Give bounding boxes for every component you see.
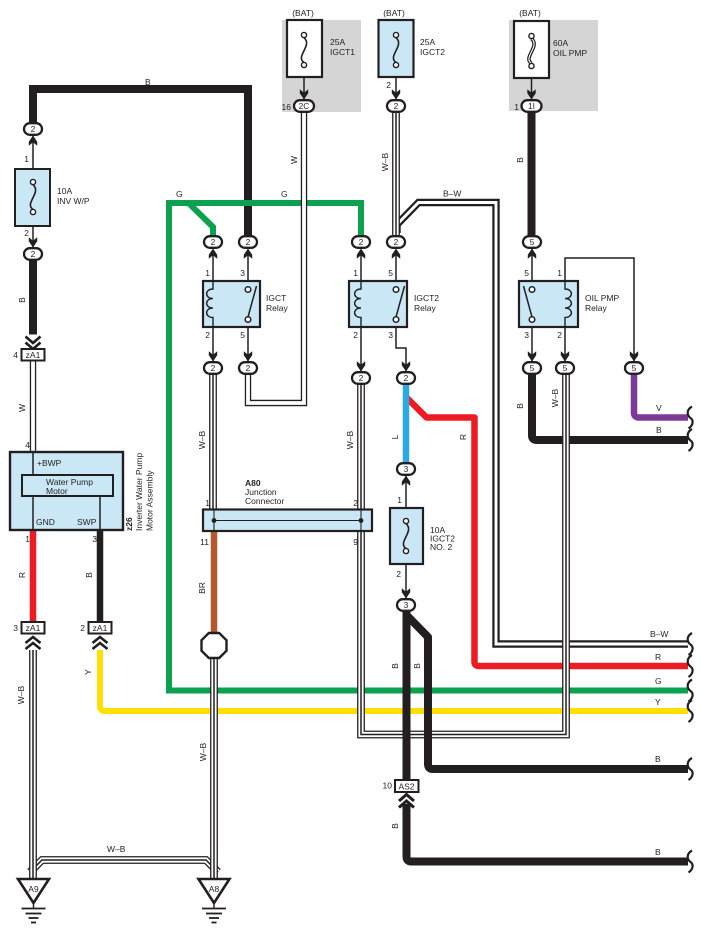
svg-text:B–W: B–W: [443, 189, 461, 199]
fuse F4 60A OIL PMP (fusible link): [514, 21, 549, 78]
svg-text:B–W: B–W: [650, 629, 668, 639]
svg-text:Connector: Connector: [245, 496, 284, 506]
ground A9: [18, 879, 49, 923]
wire V: oval below OIL PMP relay pin1 loop, down then right to edge: [634, 374, 688, 418]
connector zA1 pin 3: [22, 622, 45, 649]
svg-text:+BWP: +BWP: [37, 458, 62, 468]
node oval 5 (OIL PMP relay pin1 loop): [625, 362, 643, 374]
node oval 2 (IGCT2 relay pin5): [387, 236, 405, 248]
svg-text:3: 3: [524, 330, 529, 340]
svg-text:11: 11: [200, 537, 209, 547]
wire W: from IGCT relay pin5 oval down, right, up to fuse 25A IGCT1 oval 2C: [248, 112, 304, 403]
wire W-B: IGCT2 relay pin2 oval down to A80 pin2: [357, 384, 365, 510]
node oval 3 (fuse IGCT2 NO.2 pin2): [397, 599, 415, 611]
arrow into oval below fuse IGCT2: [392, 89, 400, 99]
wire G branch: diagonal from green trunk down to IGCT relay pin1 oval: [188, 203, 213, 241]
svg-text:Y: Y: [83, 669, 93, 675]
svg-text:Y: Y: [655, 697, 661, 707]
node oval 2C (fuse IGCT1): [294, 100, 314, 112]
svg-text:B: B: [515, 157, 525, 163]
svg-text:5: 5: [240, 330, 245, 340]
break symbol wire V: [688, 407, 693, 429]
svg-text:GND: GND: [36, 517, 55, 527]
break symbol wire B (below AS2): [688, 851, 693, 873]
connector AS2 pin 10: [395, 780, 419, 808]
svg-text:2: 2: [211, 363, 216, 373]
pin line: fuse INV W/P pin1 to oval: [32, 136, 34, 169]
svg-text:R: R: [458, 434, 468, 440]
node oval 2 (IGCT relay pin1): [204, 236, 222, 248]
wire R: motor GND pin1 down to zA1 pin3: [30, 530, 37, 622]
svg-text:(BAT): (BAT): [292, 8, 314, 18]
svg-text:W–B: W–B: [197, 430, 207, 449]
svg-text:B: B: [412, 663, 422, 669]
wire B-W: from IGCT2 relay pin5 oval diagonal up, across, down right side, to edge: [397, 203, 688, 645]
wire G trunk: IGCT2 relay pin1 oval up, across, down left side, along bottom to edge: [169, 203, 688, 691]
svg-text:B: B: [84, 572, 94, 578]
svg-text:2: 2: [246, 237, 251, 247]
svg-text:3: 3: [388, 330, 393, 340]
arrow into oval above IGCT relay pin3: [244, 249, 252, 259]
wire B: motor SWP pin3 down to zA1 pin2: [97, 530, 104, 622]
svg-text:1: 1: [514, 102, 519, 112]
svg-text:zA1: zA1: [93, 623, 108, 633]
wire B thick: below AS2 down then right to edge: [407, 804, 689, 862]
ground A8: [199, 879, 230, 923]
svg-text:2: 2: [394, 101, 399, 111]
wire W-B: zA1 pin3 down to ground A9: [29, 650, 37, 881]
arrow into oval above fuse INV W/P: [29, 136, 37, 146]
svg-text:IGCT1: IGCT1: [330, 47, 355, 57]
node oval 2 (IGCT relay pin3): [239, 236, 257, 248]
svg-text:5: 5: [388, 268, 393, 278]
wire B thick: fuse IGCT2 NO.2 oval down to AS2 pin10: [403, 610, 411, 780]
pin line: fuse 25A IGCT2 pin2 to oval: [395, 77, 397, 101]
pin line: fuse 60A OIL PMP pin1 to oval 1I: [531, 78, 533, 101]
connector zA1 pin 2: [89, 622, 112, 649]
node oval 5 (OIL PMP relay pin2): [556, 362, 574, 374]
node oval 5 (OIL PMP relay pin5): [523, 236, 541, 248]
svg-text:Relay: Relay: [585, 303, 607, 313]
svg-text:W–B: W–B: [380, 152, 390, 171]
arrow into oval below fuse INV W/P: [29, 237, 37, 247]
svg-text:Motor Assembly: Motor Assembly: [145, 470, 155, 531]
wire W-B: fuse 25A IGCT2 oval down to IGCT2 relay pin5 oval: [392, 112, 400, 237]
relay U3 OIL PMP Relay: [519, 281, 578, 327]
svg-text:Relay: Relay: [266, 303, 288, 313]
fuse F1 10A INV W/P: [15, 169, 50, 226]
svg-text:SWP: SWP: [77, 517, 97, 527]
svg-text:25A: 25A: [420, 37, 435, 47]
svg-text:10: 10: [383, 781, 393, 791]
svg-text:9: 9: [353, 537, 358, 547]
svg-text:zA1: zA1: [26, 623, 41, 633]
svg-text:R: R: [17, 572, 27, 578]
svg-text:1: 1: [557, 268, 562, 278]
svg-text:16: 16: [282, 102, 292, 112]
svg-text:AS2: AS2: [398, 782, 414, 792]
fuse F5 10A IGCT2 NO.2: [390, 508, 423, 564]
svg-text:3: 3: [240, 268, 245, 278]
svg-text:3: 3: [404, 600, 409, 610]
svg-text:10A: 10A: [57, 186, 72, 196]
fuse F2 25A IGCT1: [287, 20, 322, 77]
svg-text:IGCT2: IGCT2: [420, 47, 445, 57]
svg-text:2: 2: [246, 363, 251, 373]
svg-text:B: B: [145, 77, 151, 87]
svg-text:A9: A9: [28, 884, 39, 894]
arrow into oval above IGCT relay pin1: [209, 249, 217, 259]
relay U2 IGCT2 Relay: [349, 281, 407, 327]
svg-text:W–B: W–B: [16, 685, 26, 704]
node oval 2 (IGCT2 relay pin1): [352, 236, 370, 248]
break symbol wire R: [688, 655, 693, 677]
svg-text:2: 2: [31, 124, 36, 134]
break symbol wire B (oil relay): [688, 429, 693, 451]
svg-text:(BAT): (BAT): [519, 8, 541, 18]
svg-text:2: 2: [557, 330, 562, 340]
node oval 2 (IGCT2 relay pin3): [397, 372, 415, 384]
wire W: motor pin4 up to zA1 pin4: [30, 360, 36, 452]
svg-text:1: 1: [205, 268, 210, 278]
arrow into oval 2C: [300, 89, 308, 99]
svg-text:1: 1: [205, 498, 210, 508]
svg-text:2: 2: [353, 330, 358, 340]
svg-text:L: L: [390, 434, 400, 439]
arrow into oval above IGCT2 relay pin5: [392, 249, 400, 259]
svg-text:INV W/P: INV W/P: [57, 196, 90, 206]
svg-text:IGCT2: IGCT2: [414, 293, 439, 303]
arrow into oval below OIL PMP relay pin2: [561, 351, 569, 361]
svg-text:2C: 2C: [299, 101, 310, 111]
svg-text:2: 2: [396, 569, 401, 579]
pin lines: IGCT2 relay: [361, 254, 406, 372]
arrow into oval above fuse IGCT2 NO.2: [402, 476, 410, 486]
svg-text:25A: 25A: [330, 37, 345, 47]
svg-text:W–B: W–B: [550, 388, 560, 407]
node oval 2 (fuse INV W/P pin1): [24, 123, 42, 135]
wire W-B: octagon joint down to ground A8: [210, 656, 218, 881]
fuse block panel (60A OIL PMP): [509, 20, 598, 111]
svg-text:4: 4: [25, 440, 30, 450]
svg-text:2: 2: [386, 80, 391, 90]
octagon splice joint: [202, 633, 227, 658]
svg-text:1: 1: [397, 495, 402, 505]
svg-text:B: B: [17, 297, 27, 303]
svg-text:G: G: [655, 676, 662, 686]
svg-text:3: 3: [92, 534, 97, 544]
wire BR: A80 pin11 down to octagon joint: [211, 531, 218, 634]
svg-text:OIL PMP: OIL PMP: [585, 293, 619, 303]
svg-text:BR: BR: [197, 582, 207, 594]
node oval 5 (OIL PMP relay pin3): [523, 362, 541, 374]
svg-text:3: 3: [13, 623, 18, 633]
wire Y: from zA1 pin2 down then right to edge: [100, 650, 688, 711]
break symbol wire B-W: [688, 633, 693, 655]
node oval 1I (fuse OIL PMP): [522, 100, 542, 112]
svg-text:W–B: W–B: [107, 844, 126, 854]
node oval 2 (IGCT relay pin2): [204, 362, 222, 374]
svg-text:2: 2: [353, 498, 358, 508]
svg-text:5: 5: [530, 363, 535, 373]
wire B thick: fuse INV W/P pin2 oval down to zA1 pin4: [29, 259, 37, 335]
arrow into oval below OIL PMP relay pin1 loop: [630, 351, 638, 361]
pin lines: IGCT relay: [213, 254, 248, 362]
svg-text:2: 2: [404, 373, 409, 383]
arrow into oval below IGCT2 relay pin3: [402, 361, 410, 371]
svg-text:Inverter Water Pump: Inverter Water Pump: [134, 453, 144, 531]
node oval 2 (fuse INV W/P pin2): [24, 248, 42, 260]
svg-text:5: 5: [563, 363, 568, 373]
svg-text:2: 2: [24, 228, 29, 238]
svg-text:zA1: zA1: [26, 350, 41, 360]
break symbol wire B (fuse branch): [688, 758, 693, 780]
arrow into oval below IGCT relay pin2: [209, 351, 217, 361]
svg-text:3: 3: [404, 464, 409, 474]
svg-text:Relay: Relay: [414, 303, 436, 313]
pin lines: OIL PMP relay: [532, 249, 634, 362]
svg-text:B: B: [390, 823, 400, 829]
svg-text:2: 2: [205, 330, 210, 340]
wire W-B: A80 pin9 down, right along bottom, up to OIL PMP relay pin2 oval: [361, 374, 566, 735]
arrow into oval below fuse IGCT2 NO.2: [402, 588, 410, 598]
svg-text:W: W: [17, 404, 27, 412]
svg-text:B: B: [515, 403, 525, 409]
arrow into oval below OIL PMP relay pin3: [528, 351, 536, 361]
arrow into oval 1I: [527, 89, 535, 99]
arrow into oval below IGCT relay pin5: [244, 351, 252, 361]
wire R: from L wire junction right and down to edge: [406, 397, 688, 666]
svg-text:W–B: W–B: [345, 430, 355, 449]
svg-text:R: R: [655, 652, 661, 662]
svg-text:2: 2: [394, 237, 399, 247]
svg-text:2: 2: [211, 237, 216, 247]
svg-text:4: 4: [13, 350, 18, 360]
svg-text:G: G: [281, 189, 288, 199]
junction connector A80: [203, 510, 372, 532]
svg-text:Motor: Motor: [46, 486, 68, 496]
svg-text:G: G: [176, 189, 183, 199]
break symbol wire G: [688, 680, 693, 702]
svg-text:B: B: [655, 754, 661, 764]
pin lines: fuse IGCT2 NO.2: [405, 475, 407, 599]
svg-text:1I: 1I: [528, 101, 535, 111]
pin line: fuse INV W/P pin2 to oval: [32, 226, 34, 248]
svg-text:B: B: [656, 425, 662, 435]
node oval 2 (IGCT relay pin5): [239, 362, 257, 374]
svg-text:5: 5: [632, 363, 637, 373]
wire L: IGCT2 relay pin3 oval down to fuse IGCT2 NO.2 oval: [403, 384, 410, 463]
svg-text:5: 5: [530, 237, 535, 247]
svg-text:2: 2: [80, 623, 85, 633]
svg-text:W–B: W–B: [198, 742, 208, 761]
svg-text:OIL PMP: OIL PMP: [553, 48, 587, 58]
svg-text:A8: A8: [209, 884, 220, 894]
svg-text:NO. 2: NO. 2: [430, 542, 452, 552]
arrow into oval below IGCT2 relay pin2: [357, 361, 365, 371]
node oval 2 (fuse IGCT2): [387, 100, 405, 112]
svg-text:60A: 60A: [553, 38, 568, 48]
svg-text:5: 5: [524, 268, 529, 278]
svg-text:1: 1: [25, 534, 30, 544]
relay U1 IGCT Relay: [203, 281, 260, 327]
node oval 2 (IGCT2 relay pin2): [352, 372, 370, 384]
svg-text:2: 2: [359, 373, 364, 383]
wire B thick: OIL PMP relay pin3 oval down then right to edge: [532, 374, 688, 440]
svg-text:V: V: [656, 403, 662, 413]
fuse block panel (25A IGCT1): [282, 20, 361, 112]
svg-text:IGCT: IGCT: [266, 293, 286, 303]
node oval 3 (fuse IGCT2 NO.2 pin1): [397, 463, 415, 475]
fuse F3 25A IGCT2: [379, 20, 414, 77]
svg-text:B: B: [655, 847, 661, 857]
svg-text:1: 1: [353, 268, 358, 278]
svg-text:2: 2: [31, 249, 36, 259]
break symbol wire Y: [688, 700, 693, 722]
wire B thick: 25A IGCT1.. 60A OIL PMP fuse oval 1I down to OIL PMP relay pin5 oval: [528, 112, 536, 237]
wire W-B: bottom trio linking ground A9 and A8 verticals: [30, 860, 218, 872]
motor assembly z26 Water Pump Motor: [10, 452, 123, 530]
wire B thick: branch from above, diagonal then down then right to edge: [407, 615, 689, 769]
svg-text:2: 2: [359, 237, 364, 247]
wire B thick: top-left from fuse INV W/P up across to IGCT relay pin 3 oval: [33, 89, 248, 237]
connector zA1 pin 4: [22, 337, 45, 361]
arrow into oval above OIL PMP relay pin5: [528, 249, 536, 259]
svg-text:(BAT): (BAT): [383, 8, 405, 18]
svg-text:z26: z26: [124, 517, 134, 531]
pin line: fuse 25A IGCT1 to oval 2C: [303, 77, 305, 101]
wire W-B: IGCT relay pin2 oval down to A80 pin1: [209, 374, 217, 510]
svg-text:W: W: [289, 156, 299, 164]
svg-text:1: 1: [24, 154, 29, 164]
arrow into oval above IGCT2 relay pin1: [357, 249, 365, 259]
svg-text:B: B: [390, 663, 400, 669]
